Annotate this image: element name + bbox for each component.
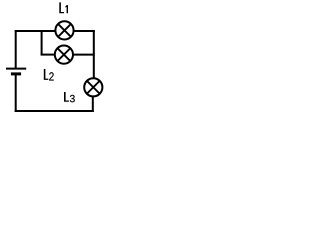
wire right side down through L3 position (93, 30, 95, 79)
wire top run from top-left corner to top-right corner (15, 30, 95, 32)
wire lamp L2 to right bar (71, 54, 95, 56)
wire branch to lamp L2 (41, 54, 56, 56)
wire battery positive up the left side (15, 30, 17, 69)
wire battery negative down the left side (15, 75, 17, 113)
wire bottom run (15, 110, 94, 112)
lamp L3 (84, 78, 102, 96)
label L3 (64, 92, 69, 102)
wire lamp L3 bottom to bottom-right corner (92, 96, 94, 112)
label L1 (59, 2, 64, 13)
battery cell: short negative plate (11, 72, 21, 75)
lamp L1 (55, 21, 73, 39)
lamp L2 (55, 46, 73, 64)
label L2 (44, 69, 49, 80)
wire branch bar down from node at x=42 (41, 30, 43, 55)
battery cell: long positive plate (6, 68, 26, 70)
